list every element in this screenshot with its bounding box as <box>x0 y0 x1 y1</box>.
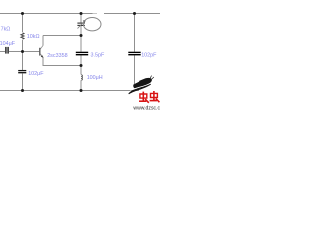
svg-text:100μH: 100μH <box>87 75 103 81</box>
svg-text:www.dzsc.c: www.dzsc.c <box>133 105 160 110</box>
svg-text:10kΩ: 10kΩ <box>27 34 40 40</box>
svg-text:102pF: 102pF <box>141 52 157 58</box>
svg-text:102μF: 102μF <box>28 71 44 77</box>
svg-text:3.5pF: 3.5pF <box>91 52 105 58</box>
svg-text:2sc3358: 2sc3358 <box>47 53 67 59</box>
svg-text:7kΩ: 7kΩ <box>1 26 11 32</box>
svg-text:104μF: 104μF <box>0 41 16 47</box>
